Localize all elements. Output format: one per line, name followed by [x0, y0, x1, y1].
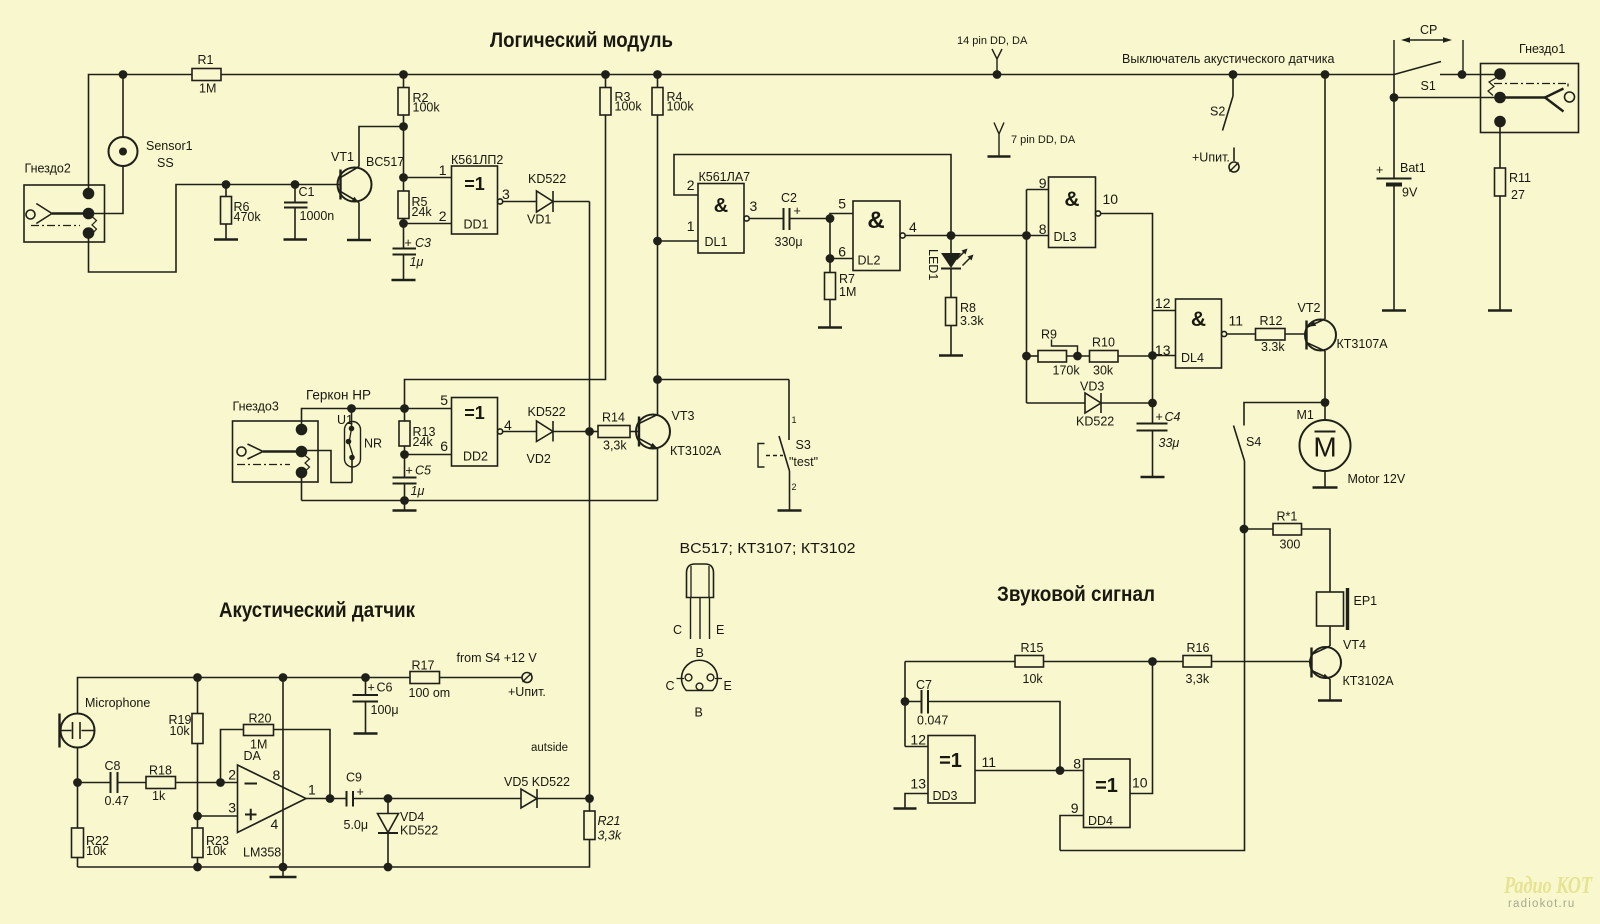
- wire DD1 pin1: [404, 177, 452, 179]
- switch S2: [1210, 75, 1234, 162]
- ground C5: [393, 501, 417, 511]
- svg-text:R20: R20: [249, 712, 272, 726]
- svg-text:+: +: [406, 464, 413, 478]
- resistor R14: [590, 411, 640, 453]
- svg-text:0.047: 0.047: [917, 714, 948, 728]
- capacitor C1: [284, 185, 334, 240]
- wire op-amp pin3: [198, 815, 238, 817]
- capacitor C6: [353, 678, 399, 734]
- transistor VT4 КТ3102А: [1310, 638, 1394, 688]
- node rail R19: [194, 674, 201, 681]
- transistor VT1 BC517: [331, 150, 404, 203]
- pin DD1 output circle: [498, 199, 503, 204]
- terminal +Uпит S2: [1192, 151, 1239, 173]
- svg-text:2: 2: [439, 208, 447, 224]
- node VD4: [384, 795, 391, 802]
- svg-text:2: 2: [687, 177, 695, 193]
- node VD3/C4: [1149, 399, 1156, 406]
- node top rail at VT2: [1321, 71, 1328, 78]
- reed switch U1 NR: [337, 409, 382, 483]
- transistor VT2 КТ3107А: [1298, 301, 1389, 351]
- wire VD3 cathode to C4 node: [1101, 402, 1153, 404]
- wire VT1 emitter to ground: [358, 203, 360, 240]
- resistor R8: [946, 269, 985, 356]
- svg-text:E: E: [724, 679, 732, 693]
- wire top rail R1 to S1: [221, 74, 1394, 76]
- svg-text:3.3k: 3.3k: [1261, 340, 1285, 354]
- svg-text:Акустический датчик: Акустический датчик: [219, 599, 415, 622]
- svg-text:Sensor1: Sensor1: [146, 139, 193, 153]
- svg-text:R18: R18: [149, 764, 172, 778]
- capacitor C5: [393, 455, 432, 501]
- logic gate DL3: [1039, 175, 1119, 248]
- svg-text:Гнездо2: Гнездо2: [25, 162, 71, 176]
- svg-text:C5: C5: [415, 464, 431, 478]
- capacitor C3: [393, 224, 432, 280]
- svg-text:R21: R21: [598, 814, 621, 828]
- svg-text:+Uпит.: +Uпит.: [508, 685, 546, 699]
- svg-text:autside: autside: [531, 742, 568, 754]
- svg-text:=1: =1: [464, 174, 485, 194]
- resistor R12: [1256, 314, 1286, 354]
- node rail C6: [362, 674, 369, 681]
- svg-text:10: 10: [1132, 775, 1148, 791]
- wire DD4 pin9 return: [1060, 816, 1084, 851]
- svg-text:C: C: [666, 679, 675, 693]
- node motor / VT2 collector: [1321, 399, 1328, 406]
- node U1 top: [348, 405, 355, 412]
- wire VT2 emitter to top rail: [1324, 75, 1326, 320]
- wire long vertical VD1/VD2 node to acoustic output node: [589, 202, 591, 799]
- wire acoustic +12V rail: [78, 678, 411, 714]
- svg-text:DL4: DL4: [1181, 351, 1204, 365]
- node top rail at R4: [654, 71, 661, 78]
- wire DD2 pin6: [405, 454, 452, 456]
- resistor R16: [1183, 641, 1212, 686]
- svg-text:13: 13: [910, 776, 926, 792]
- svg-text:C1: C1: [299, 185, 315, 199]
- ground R8: [939, 354, 963, 356]
- svg-text:11: 11: [1229, 313, 1244, 329]
- svg-text:VT2: VT2: [1298, 301, 1321, 315]
- switch S3 test: [758, 380, 818, 511]
- wire VD4 node to VD5: [388, 798, 521, 800]
- svg-text:DD2: DD2: [463, 450, 488, 464]
- svg-text:+Uпит.: +Uпит.: [1192, 151, 1230, 165]
- node output/feedback: [326, 795, 333, 802]
- wire Sensor1 bottom lead to Гнездо2 middle pin: [93, 166, 123, 214]
- pin DL3 output circle: [1096, 211, 1101, 216]
- svg-text:R7: R7: [839, 272, 855, 286]
- svg-text:VD5 KD522: VD5 KD522: [504, 775, 570, 789]
- svg-text:1: 1: [439, 162, 447, 178]
- svg-text:R16: R16: [1187, 641, 1210, 655]
- svg-text:8: 8: [1073, 756, 1081, 772]
- svg-text:24k: 24k: [413, 435, 434, 449]
- wire DL2 pin5 jog: [830, 214, 853, 219]
- wire S1 pivot down to battery node: [1393, 75, 1395, 179]
- node DL2 output: [947, 232, 954, 239]
- wire VT4 emitter to ground: [1329, 679, 1331, 700]
- svg-text:1k: 1k: [152, 789, 166, 803]
- wire DD1 pin3 to VD1: [503, 201, 537, 203]
- node R15/R16/DD4 pin10: [1149, 658, 1156, 665]
- svg-text:DD1: DD1: [464, 218, 489, 232]
- ground R7: [818, 326, 842, 328]
- battery Bat1 9V: [1376, 161, 1426, 310]
- svg-text:4: 4: [504, 417, 512, 433]
- diode VD1 KD522: [527, 172, 566, 227]
- svg-text:&: &: [1191, 308, 1206, 331]
- svg-text:10k: 10k: [1023, 672, 1044, 686]
- svg-text:C9: C9: [346, 771, 362, 785]
- resistor R18: [118, 764, 238, 804]
- antenna 7 pin DD, DA: [994, 123, 1076, 157]
- wire DD2 pin4 to VD2: [503, 431, 537, 433]
- svg-text:Геркон НР: Геркон НР: [306, 388, 371, 403]
- watermark РадиоКОТ: [1503, 873, 1593, 910]
- svg-text:C8: C8: [105, 759, 121, 773]
- node C5 ground bus: [401, 497, 408, 504]
- capacitor C9: [344, 771, 389, 833]
- pin DL4 output circle: [1222, 331, 1227, 336]
- svg-text:4: 4: [271, 816, 279, 832]
- svg-text:33μ: 33μ: [1159, 436, 1180, 450]
- svg-text:7 pin DD, DA: 7 pin DD, DA: [1011, 134, 1076, 146]
- node bus VD4: [384, 863, 391, 870]
- diode VD3 KD522: [1027, 380, 1115, 429]
- svg-text:КТ3102А: КТ3102А: [1343, 674, 1395, 688]
- node DD1 pin2: [400, 220, 407, 227]
- wire VT1 collector to R2 node: [359, 127, 404, 167]
- led LED1: [926, 236, 974, 281]
- svg-text:C: C: [673, 623, 682, 637]
- svg-text:2: 2: [792, 482, 797, 492]
- resistor R17: [409, 659, 523, 701]
- svg-text:Гнездо1: Гнездо1: [1519, 42, 1565, 56]
- wire R12 to VT2 base: [1285, 333, 1307, 335]
- ground C1: [284, 238, 308, 240]
- logic gate DD3: [905, 732, 996, 804]
- logic gate DD1 К561ЛП2: [439, 153, 510, 234]
- svg-text:1: 1: [687, 218, 695, 234]
- node DL1 pin1 junction: [654, 237, 661, 244]
- wire op-amp power pin8/pin4: [282, 678, 284, 868]
- connector Гнездо2: [24, 162, 105, 243]
- svg-text:+: +: [1156, 410, 1163, 424]
- wire Sensor1 top lead: [122, 75, 124, 138]
- node top rail at R2: [400, 71, 407, 78]
- svg-text:U1: U1: [337, 413, 353, 427]
- wire R4 bottom down to VT3 collector: [657, 115, 659, 415]
- resistor R6: [221, 185, 262, 240]
- diode VD5 KD522: [504, 775, 570, 808]
- svg-text:5: 5: [440, 392, 448, 408]
- pin DL1 output circle: [744, 216, 749, 221]
- svg-text:+: +: [368, 681, 375, 695]
- resistor R11: [1495, 126, 1532, 310]
- wire DL4 pin11 to R12: [1227, 333, 1256, 335]
- svg-text:1000n: 1000n: [300, 209, 335, 223]
- svg-text:КТ3107А: КТ3107А: [1337, 337, 1389, 351]
- svg-text:EP1: EP1: [1354, 594, 1378, 608]
- svg-text:+: +: [794, 204, 801, 218]
- wire DD3 pin11 to DD4 pin8: [975, 770, 1084, 772]
- svg-text:3: 3: [750, 198, 758, 214]
- resistor R13: [399, 409, 435, 455]
- wire DL4 pin12: [1153, 310, 1176, 312]
- title: Звуковой сигнал: [997, 583, 1155, 606]
- wire op-amp output: [306, 798, 347, 800]
- wire DL1 pin1: [658, 240, 699, 242]
- wire C7 right to DD4 pin8 node: [928, 702, 1060, 771]
- ground C6: [354, 732, 378, 734]
- svg-text:E: E: [716, 623, 724, 637]
- wire DL1 pin3 to C2: [749, 218, 783, 220]
- wire DD1 pin2: [404, 223, 452, 225]
- label Геркон НР: [306, 388, 371, 403]
- pin DL2 output circle: [900, 233, 905, 238]
- svg-text:5: 5: [838, 196, 846, 212]
- logic gate DD2: [440, 392, 512, 466]
- node signal rail at R6: [222, 181, 229, 188]
- wire VT2 collector down to motor node: [1324, 351, 1326, 403]
- svg-text:NR: NR: [364, 437, 382, 451]
- svg-text:100k: 100k: [615, 100, 643, 114]
- capacitor C4: [1137, 403, 1181, 477]
- node R2 bottom: [400, 123, 407, 130]
- svg-text:R9: R9: [1041, 328, 1057, 342]
- svg-text:27: 27: [1511, 188, 1525, 202]
- wire DL3 pin9 tie vertical: [1026, 190, 1028, 236]
- terminal +Uпит acoustic: [508, 673, 546, 700]
- wire R16 to VT4 base: [1212, 661, 1312, 663]
- svg-text:3,3k: 3,3k: [598, 829, 622, 843]
- node DL2 pin6: [826, 255, 833, 262]
- svg-text:5.0μ: 5.0μ: [344, 818, 369, 832]
- svg-text:&: &: [867, 207, 884, 234]
- svg-text:170k: 170k: [1053, 364, 1081, 378]
- svg-text:S4: S4: [1246, 435, 1261, 449]
- svg-text:VD2: VD2: [527, 452, 551, 466]
- svg-text:R17: R17: [412, 659, 435, 673]
- wire acoustic ground bus: [78, 840, 590, 868]
- svg-text:10k: 10k: [86, 844, 107, 858]
- ground op-amp pin4: [270, 867, 297, 877]
- resistor R19: [169, 678, 204, 817]
- svg-text:100μ: 100μ: [371, 703, 399, 717]
- label from S4 +12 V: [457, 651, 538, 665]
- ground C4: [1141, 476, 1165, 478]
- svg-text:9V: 9V: [1402, 186, 1418, 200]
- node R19/R23/pin3: [194, 812, 201, 819]
- wire VT3 emitter to ground bus: [657, 449, 659, 501]
- wire R3 bottom down and left to R13 node: [405, 115, 606, 409]
- svg-text:1μ: 1μ: [410, 255, 424, 269]
- svg-text:SS: SS: [157, 156, 174, 170]
- node mic/C8/R22: [74, 779, 81, 786]
- label: Выключатель акустического датчика: [1122, 52, 1334, 66]
- node R18/R20 feedback: [217, 779, 224, 786]
- svg-text:1μ: 1μ: [411, 484, 425, 498]
- resistor R5: [398, 191, 432, 224]
- transistor VT3 КТ3102А: [636, 409, 722, 458]
- wire DL4 pin13: [1153, 355, 1176, 357]
- wire R15 to R16: [1044, 661, 1184, 663]
- switch S4: [1234, 426, 1262, 462]
- svg-text:10k: 10k: [170, 724, 191, 738]
- svg-text:C4: C4: [1165, 410, 1181, 424]
- ground Bat1: [1382, 309, 1406, 311]
- wire VD2 cathode to summing node: [553, 431, 590, 433]
- svg-text:BC517: BC517: [366, 155, 404, 169]
- wire top rail from Гнездо2 to R1: [89, 75, 193, 194]
- svg-text:KD522: KD522: [1076, 415, 1114, 429]
- ground M1: [1313, 486, 1338, 488]
- node DL3 pin8/pin9 tie: [1023, 232, 1030, 239]
- svg-text:+: +: [357, 785, 364, 799]
- wire Гнездо3 middle pin to U1 bottom: [304, 451, 352, 483]
- pin DD2 output circle: [498, 429, 503, 434]
- svg-text:24k: 24k: [412, 205, 433, 219]
- svg-text:100 om: 100 om: [409, 686, 451, 700]
- svg-text:КТ3102А: КТ3102А: [670, 444, 722, 458]
- svg-text:=1: =1: [939, 750, 962, 772]
- svg-text:M: M: [1313, 432, 1336, 463]
- svg-text:9: 9: [1071, 800, 1079, 816]
- svg-text:Логический модуль: Логический модуль: [490, 29, 673, 52]
- wire R2 node down to DD1 pin1 node: [403, 127, 405, 192]
- capacitor C2: [775, 191, 803, 249]
- svg-text:+: +: [1376, 163, 1383, 177]
- svg-text:R12: R12: [1260, 314, 1283, 328]
- svg-text:3: 3: [502, 186, 510, 202]
- svg-text:R14: R14: [602, 411, 625, 425]
- wire DL3 tie down to R9 and VD3: [1026, 236, 1028, 404]
- wire DL3 pin10 to DL4 pin12 and pin13 chain: [1101, 214, 1153, 404]
- svg-text:DL3: DL3: [1054, 230, 1077, 244]
- svg-text:Microphone: Microphone: [85, 696, 150, 710]
- wire Гнездо3 bottom pin to ground bus: [301, 473, 303, 501]
- diode VD2 KD522: [527, 405, 566, 466]
- svg-text:Bat1: Bat1: [1400, 161, 1426, 175]
- svg-text:100k: 100k: [667, 100, 695, 114]
- package TO-92 front view: [673, 564, 724, 660]
- resistor R15: [905, 641, 1044, 686]
- node DL2 input: [826, 215, 833, 222]
- node R9/R10 junction: [1074, 352, 1081, 359]
- node top rail at Sensor1: [119, 71, 126, 78]
- resistor R23: [192, 816, 229, 867]
- connector Гнездо3: [233, 400, 319, 483]
- node bus op-amp: [279, 863, 286, 870]
- svg-text:3,3k: 3,3k: [603, 439, 627, 453]
- node summing VD1/VD2/R14: [586, 428, 593, 435]
- svg-text:VD3: VD3: [1080, 380, 1104, 394]
- svg-text:6: 6: [440, 438, 448, 454]
- svg-text:VD4: VD4: [400, 810, 424, 824]
- svg-text:1: 1: [308, 782, 316, 798]
- wire signal rail to VT1 base: [226, 184, 341, 186]
- node DD4 pin8: [1056, 767, 1063, 774]
- resistor R9 trimmer: [1027, 328, 1081, 378]
- wire DD3 pin13 to ground: [905, 794, 928, 809]
- svg-text:10: 10: [1103, 191, 1119, 207]
- node rail op-amp pin8: [279, 674, 286, 681]
- svg-text:10k: 10k: [206, 844, 227, 858]
- ground DD3 pin13: [894, 807, 917, 809]
- ground C3: [392, 279, 416, 281]
- ground R11: [1488, 309, 1512, 311]
- microphone: [60, 696, 151, 748]
- wire DL2 input node down to pin6 node: [829, 219, 831, 259]
- svg-text:14 pin DD, DA: 14 pin DD, DA: [957, 35, 1028, 47]
- wire battery node to Гнездо1 pin2: [1394, 97, 1496, 99]
- svg-text:DD4: DD4: [1088, 814, 1113, 828]
- label BC517 KT3107 KT3102: [680, 540, 856, 557]
- svg-text:KD522: KD522: [528, 405, 566, 419]
- op-amp DA LM358: [228, 749, 316, 860]
- svg-text:3,3k: 3,3k: [1186, 672, 1210, 686]
- svg-text:S3: S3: [796, 438, 811, 452]
- wire microphone to C8 node: [77, 748, 79, 783]
- wire DL2 pin6: [830, 258, 853, 260]
- svg-text:0.47: 0.47: [105, 794, 129, 808]
- svg-text:1M: 1M: [199, 82, 216, 96]
- logic gate DL4: [1155, 295, 1243, 368]
- node DD1 pin1: [400, 174, 407, 181]
- svg-text:R10: R10: [1092, 336, 1115, 350]
- svg-text:S1: S1: [1421, 79, 1436, 93]
- resistor R2: [398, 75, 440, 127]
- node C7 left: [901, 698, 908, 705]
- resistor R1: [192, 53, 221, 96]
- svg-text:radiokot.ru: radiokot.ru: [1508, 898, 1576, 910]
- svg-text:+: +: [405, 236, 412, 250]
- svg-text:C6: C6: [377, 681, 393, 695]
- svg-text:13: 13: [1155, 342, 1171, 358]
- svg-text:R8: R8: [960, 301, 976, 315]
- svg-text:Выключатель акустического датч: Выключатель акустического датчика: [1122, 52, 1334, 66]
- diode VD4 KD522: [378, 799, 439, 868]
- svg-text:R11: R11: [1509, 171, 1531, 185]
- svg-text:C3: C3: [415, 236, 431, 250]
- wire S4 down to DD4 pin9 return: [1060, 461, 1245, 851]
- resistor R20 feedback: [221, 712, 331, 799]
- svg-text:from S4 +12 V: from S4 +12 V: [457, 651, 538, 665]
- svg-text:M1: M1: [1297, 408, 1314, 422]
- wire R10 to DL4 pin13 node: [1118, 355, 1153, 358]
- resistor R22: [72, 783, 109, 868]
- svg-text:C2: C2: [781, 191, 797, 205]
- node R*1: [1240, 525, 1247, 532]
- svg-text:&: &: [1064, 188, 1079, 211]
- svg-text:CP: CP: [1420, 23, 1437, 37]
- svg-text:KD522: KD522: [400, 824, 438, 838]
- svg-text:VT1: VT1: [331, 150, 354, 164]
- resistor R10: [1090, 336, 1119, 378]
- svg-text:К561ЛП2: К561ЛП2: [451, 153, 503, 167]
- svg-text:S2: S2: [1210, 105, 1225, 119]
- wire Гнездо3 top pin to Геркон rail: [302, 409, 452, 430]
- capacitor C7: [905, 678, 948, 728]
- node S1 right: [1458, 71, 1465, 78]
- svg-text:DD3: DD3: [933, 789, 958, 803]
- ground R6: [214, 238, 238, 240]
- wire DL1 pin2 feedback from output node: [674, 155, 951, 236]
- svg-text:3: 3: [228, 800, 236, 816]
- svg-text:B: B: [696, 646, 704, 660]
